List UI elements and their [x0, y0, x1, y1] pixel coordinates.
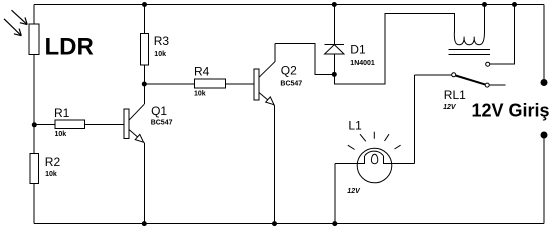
relay RL1 switch lever	[456, 76, 486, 85]
svg-text:D1: D1	[350, 43, 366, 57]
svg-text:R3: R3	[154, 34, 170, 48]
relay contact NO terminal circle	[486, 62, 490, 66]
node contact feed / top rail junction dot	[512, 2, 517, 7]
node D1 cathode / top rail junction dot	[332, 2, 337, 7]
wire lamp right to switch	[413, 75, 415, 164]
wire R2 top	[33, 125, 35, 154]
lamp L1	[335, 148, 415, 183]
svg-text:L1: L1	[348, 119, 362, 133]
svg-text:BC547: BC547	[151, 120, 173, 127]
svg-text:R2: R2	[45, 155, 61, 169]
wire LDR bottom to node A	[33, 55, 35, 125]
wire R4 left	[144, 83, 194, 85]
relay RL1 coil	[454, 32, 484, 45]
node Q2 emitter / bottom rail junction dot	[272, 221, 277, 226]
resistor R2	[30, 154, 39, 184]
node coil / top rail junction dot	[482, 2, 487, 7]
wire right bottom rise to 12V terminal	[543, 135, 545, 224]
svg-text:10k: 10k	[55, 131, 67, 138]
terminal dot lower 12V input	[541, 132, 548, 139]
terminal dot upper 12V input	[541, 79, 548, 86]
svg-text:RL1: RL1	[444, 88, 466, 102]
resistor R4	[195, 79, 226, 88]
svg-text:Q1: Q1	[151, 104, 167, 118]
LDR light arrows	[4, 10, 27, 36]
wire LDR top	[33, 5, 35, 25]
relay RL1 core lines	[449, 49, 490, 51]
wire lamp left down to bottom rail	[334, 163, 336, 223]
wire top rail	[34, 4, 544, 6]
transistor Q1	[124, 84, 145, 224]
node lamp / bottom rail junction dot	[332, 221, 337, 226]
svg-text:1N4001: 1N4001	[350, 60, 375, 67]
svg-text:12V: 12V	[443, 104, 457, 111]
node top rail / R3 junction dot	[142, 2, 147, 7]
svg-text:R4: R4	[194, 65, 210, 79]
diode D1	[325, 5, 344, 75]
svg-text:12V: 12V	[347, 188, 361, 195]
wire lamp to switch pole	[414, 74, 451, 76]
wire NC contact stub	[489, 84, 505, 86]
wire NO contact to top rail	[490, 5, 515, 65]
svg-text:10k: 10k	[45, 171, 57, 178]
wire right top drop to 12V terminal	[543, 5, 545, 83]
relay RL1 switch NC terminal circle	[485, 83, 489, 87]
transistor Q2	[254, 43, 275, 223]
node B junction dot (R3/R4/Q1 collector)	[142, 82, 147, 87]
node Q1 emitter / bottom rail junction dot	[142, 221, 147, 226]
lamp L1 rays	[348, 132, 401, 150]
svg-text:Q2: Q2	[281, 64, 297, 78]
wire R1 right to Q1 base	[85, 124, 124, 126]
wire R3 top	[144, 5, 146, 34]
svg-text:R1: R1	[54, 106, 70, 120]
node A junction dot (LDR/R1/R2)	[32, 122, 37, 127]
wire coil right to top rail	[484, 5, 486, 32]
svg-text:12V Giriş: 12V Giriş	[472, 100, 550, 120]
svg-text:BC547: BC547	[280, 81, 302, 88]
wire R1 left	[34, 124, 55, 126]
wire bottom rail	[34, 223, 544, 225]
svg-text:10k: 10k	[194, 91, 206, 98]
wire R4 right to Q2 base	[225, 83, 254, 85]
wire D1 anode node to relay coil left	[334, 13, 454, 84]
resistor R3	[141, 34, 149, 65]
wire R2 bottom	[33, 184, 35, 224]
wire Q2 collector to D1 anode node	[275, 43, 335, 74]
resistor R1	[55, 120, 85, 128]
svg-text:10k: 10k	[154, 51, 166, 58]
LDR body	[29, 24, 39, 54]
node D1 anode junction dot	[332, 72, 337, 77]
wire R3 bottom to node B	[144, 65, 146, 84]
relay RL1 switch pole circle	[452, 73, 456, 77]
svg-text:LDR: LDR	[45, 34, 94, 61]
